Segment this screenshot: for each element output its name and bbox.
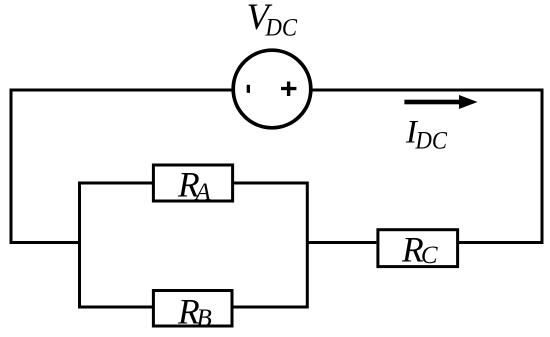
wire parallel right rail: [306, 182, 309, 309]
current arrow: [404, 95, 477, 109]
wire RA right lead: [234, 182, 307, 185]
wire top-left horizontal: [11, 89, 233, 92]
svg-text:C: C: [421, 242, 438, 269]
wire top-right horizontal: [311, 89, 544, 92]
wire middle-left horizontal: [10, 241, 80, 244]
resistor RB: [153, 291, 232, 327]
wire right vertical rail: [541, 89, 544, 245]
svg-text:B: B: [197, 305, 212, 332]
resistor RC: [378, 230, 458, 267]
wire middle horizontal (parallel block to RC): [307, 241, 376, 244]
label R_C: [401, 229, 438, 269]
wire left vertical rail: [10, 89, 13, 245]
svg-text:A: A: [194, 179, 212, 206]
wire RA left lead: [80, 182, 153, 185]
wire parallel left rail: [78, 182, 81, 309]
wire RB right lead: [234, 306, 308, 309]
minus terminal mark: [247, 85, 250, 93]
label R_B: [177, 291, 212, 332]
svg-text:DC: DC: [265, 15, 298, 42]
label I_DC: [405, 114, 447, 154]
resistor RA: [153, 165, 232, 201]
wire RB left lead: [80, 306, 153, 309]
label V_DC: [247, 0, 298, 42]
wire middle-right horizontal (RC to right rail): [459, 241, 544, 244]
svg-text:DC: DC: [415, 128, 448, 155]
label R_A: [177, 165, 212, 207]
voltage source VDC: [233, 50, 311, 128]
plus terminal mark: [281, 82, 296, 97]
